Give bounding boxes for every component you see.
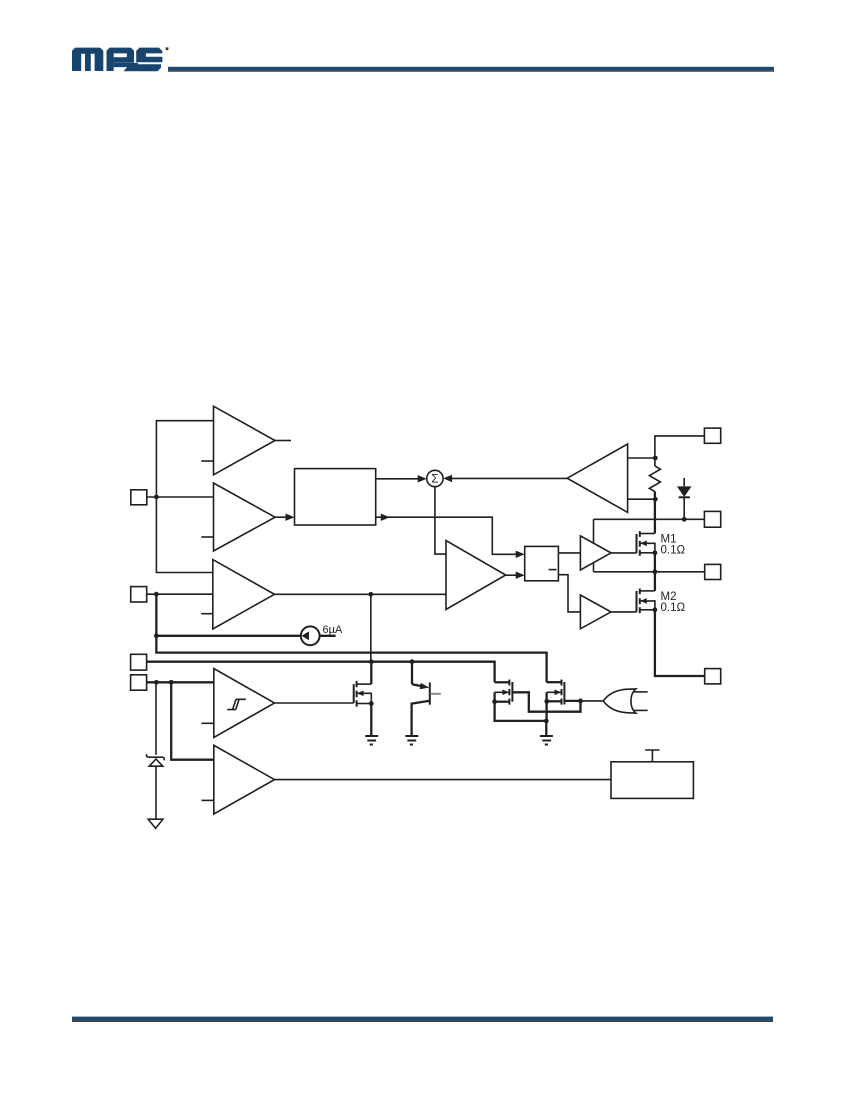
block B3: [611, 762, 693, 799]
wire Q3 drain stub: [357, 683, 372, 685]
wire BST pin line: [594, 518, 705, 520]
transistor Q6 gate bar: [563, 682, 565, 705]
wire 6uA current source line: [156, 635, 301, 637]
block B3 antenna: [645, 750, 660, 762]
wire Q3 bulk stub: [357, 693, 371, 703]
wire PNP collector diagonal: [412, 701, 430, 704]
junction dot Q6 source: [544, 699, 549, 704]
svg-text:6µA: 6µA: [323, 624, 343, 636]
transistor M1 gate bar: [636, 534, 638, 553]
ground G1: [365, 736, 378, 745]
wire M1 bulk stub: [640, 543, 655, 553]
current source 6uA circle: [301, 626, 320, 645]
comparator A4 schmitt trigger: [214, 669, 275, 738]
wire M2 drain stub: [640, 590, 655, 592]
MPS logo letter m: [72, 48, 103, 71]
wire BST to SW vertical: [593, 519, 595, 572]
pin square S2: [704, 511, 720, 527]
wire branch to A5 noninverting input: [171, 682, 214, 759]
junction dot M1 source: [653, 550, 658, 555]
pin square S3: [705, 564, 721, 579]
diode D1 cathode bar: [679, 496, 690, 498]
wire OR input stub bottom: [633, 709, 648, 711]
arrowhead Q6 bulk: [555, 690, 562, 696]
wire bus from L2 node down to right NMOS drain: [156, 594, 546, 682]
header rule: [168, 67, 774, 70]
op-amp A3: [213, 560, 275, 629]
wire M1 source stub: [640, 552, 655, 554]
junction dot Q3 drain node: [369, 659, 374, 664]
wire Q6 gate to OR junction: [564, 700, 580, 702]
junction dot Q3 source: [369, 701, 374, 706]
wire A4 output to Q3 gate: [275, 702, 354, 704]
wire Q5 drain stub: [495, 681, 510, 683]
arrowhead into comparator bottom input: [516, 572, 525, 579]
wire Q5 source to ground node: [495, 702, 547, 721]
transistor M1 channel: [639, 531, 641, 556]
junction dot A3 output node: [368, 592, 373, 597]
wire A1 noninverting input: [156, 421, 213, 573]
svg-text:Σ: Σ: [431, 474, 438, 486]
MPS logo letter s: [114, 48, 163, 72]
arrowhead into summer right: [443, 475, 452, 482]
transistor Q6 channel: [561, 680, 563, 705]
wire A3 output branch down to L3 bus: [370, 594, 372, 661]
wire A2 output to block B1: [274, 516, 287, 518]
junction dot L4 node 2: [169, 680, 174, 685]
transistor Q3 gate bar: [353, 684, 355, 703]
pin square S1: [704, 428, 720, 443]
wire VIN pin to sense resistor: [655, 436, 705, 466]
transistor M2 gate bar: [636, 591, 638, 612]
MPS logo trademark dot: [166, 47, 169, 50]
junction dot A2 input node: [154, 495, 159, 500]
transistor Q5 channel: [508, 680, 510, 705]
wire D2 output to M2 gate: [611, 611, 637, 613]
current sense amp: [567, 444, 627, 512]
wire pin L2 to A3 middle input: [147, 593, 213, 595]
wire ground node to G3: [545, 721, 547, 736]
wire M2 bulk stub: [640, 601, 655, 610]
arrowhead PNP emitter: [420, 683, 430, 689]
wire Q3 drain riser: [370, 662, 372, 684]
junction dot 6uA line node: [154, 633, 159, 638]
wire CS amp bottom stub: [628, 498, 656, 500]
wire CS amp top stub: [628, 457, 656, 459]
junction dot M2 source: [653, 607, 658, 612]
junction dot SW node: [653, 569, 658, 574]
diode D1 anode stub: [683, 478, 685, 487]
junction dot OR gate node: [578, 699, 583, 704]
Q4 base stub: [431, 693, 441, 695]
wire M2 source to pin S4: [655, 610, 705, 676]
arrowhead into comparator top input: [516, 551, 525, 558]
svg-text:0.1Ω: 0.1Ω: [661, 602, 686, 614]
wire D1 output to M1 gate: [611, 552, 637, 554]
error amp A6: [446, 541, 506, 610]
op-amp A5: [214, 745, 275, 814]
wire Q5 source stub: [495, 701, 510, 703]
down arrow ground: [148, 819, 163, 828]
op-amp A2: [214, 483, 276, 551]
wire diode to BST line: [683, 497, 685, 519]
arrowhead A2 output: [286, 514, 295, 521]
wire M2 source stub: [640, 609, 655, 611]
summer circle: [427, 470, 443, 486]
arrowhead Q5 bulk: [502, 690, 509, 696]
wire zener to down arrow: [155, 766, 157, 819]
wire PNP collector to ground: [410, 703, 412, 736]
wire SW pin line: [594, 571, 705, 573]
wire Q5 bulk stub: [493, 692, 495, 701]
arrowhead Q3 bulk: [357, 691, 364, 697]
junction dot CS top stub: [653, 456, 658, 461]
wire PWM comparator output 1 to driver D1: [558, 552, 580, 554]
wire B1 output 2 to PWM comparator: [376, 517, 517, 554]
block B1: [295, 469, 376, 525]
pin square L2: [131, 587, 147, 602]
wire Q6 bulk stub: [545, 692, 547, 701]
ground G2: [405, 736, 418, 745]
wire Q3 source to ground: [370, 704, 372, 736]
junction dot L4 node 1: [154, 680, 159, 685]
transistor Q3 channel: [356, 681, 358, 707]
wire Q6 source stub: [547, 700, 562, 702]
pin square L3: [131, 654, 147, 670]
wire A1 output stub: [275, 440, 291, 442]
wire OR gate output: [581, 700, 605, 702]
junction dot diode BST: [682, 517, 687, 522]
PWM comparator block B2: [525, 546, 559, 580]
pin square L4: [131, 675, 147, 690]
ground G3: [540, 736, 553, 745]
wire B1 output 1 to summer: [376, 478, 419, 480]
pin square L1: [131, 490, 147, 505]
junction dot ground node: [544, 719, 549, 724]
wire A5 output to block B3: [275, 779, 612, 781]
wire zener branch down: [155, 682, 157, 755]
transistor Q4 PNP base bar: [429, 683, 431, 705]
wire M1 source to SW node: [654, 553, 656, 572]
arrowhead mid B1 output 2: [381, 514, 390, 521]
driver D1: [580, 536, 611, 570]
wire PWM comparator output 2 to driver D2: [558, 575, 580, 612]
wire A3 output to error amp: [275, 593, 447, 595]
driver D2: [580, 595, 611, 629]
wire Q6 drain stub: [547, 681, 562, 683]
zener diode triangle: [149, 759, 163, 766]
arrowhead inside current source: [302, 631, 310, 640]
wire Q5 gate tie: [512, 692, 580, 711]
wire SW node to M2 drain: [654, 572, 656, 591]
wire resistor to M1 drain: [654, 492, 656, 534]
minus sign in comparator: [549, 569, 557, 571]
wire pin L4 to A4 input: [147, 681, 214, 683]
wire Q6 source to ground node: [545, 701, 547, 721]
arrowhead M2 bulk: [640, 598, 647, 604]
junction dot PNP emitter node: [410, 659, 415, 664]
wire OR input stub top: [633, 691, 648, 693]
wire error amp output to comparator: [505, 574, 517, 576]
svg-text:0.1Ω: 0.1Ω: [661, 544, 686, 556]
arrowhead M1 bulk: [640, 541, 647, 547]
wire Q3 source stub: [357, 703, 372, 705]
pin square S4: [705, 669, 721, 684]
diode D1 triangle: [677, 486, 692, 497]
wire pin L1 to A2 noninverting input: [147, 496, 214, 498]
wire PNP emitter riser: [411, 662, 413, 685]
wire 6uA current source stub right: [320, 635, 336, 637]
wire PNP emitter diagonal: [412, 684, 424, 686]
footer rule: [72, 1017, 773, 1021]
wire pin L3 bus to left NMOS drain: [147, 662, 495, 683]
wire summer output down to error amp: [435, 487, 446, 554]
op-amp A1: [214, 406, 276, 475]
transistor M2 channel: [639, 589, 641, 614]
MPS logo letter p: [107, 48, 135, 71]
zener diode cathode bar: [146, 754, 164, 760]
wire M1 drain stub: [640, 533, 655, 535]
junction dot Q5 source: [492, 699, 497, 704]
wire current sense amp output to summer: [450, 477, 567, 479]
arrowhead into summer left: [418, 475, 427, 482]
resistor R sense zigzag: [649, 466, 660, 492]
junction dot CS bottom stub: [653, 497, 658, 502]
OR gate body: [603, 689, 636, 713]
transistor Q5 gate bar: [511, 682, 513, 702]
schmitt hysteresis symbol: [227, 699, 246, 709]
junction dot A3 input node: [154, 592, 159, 597]
